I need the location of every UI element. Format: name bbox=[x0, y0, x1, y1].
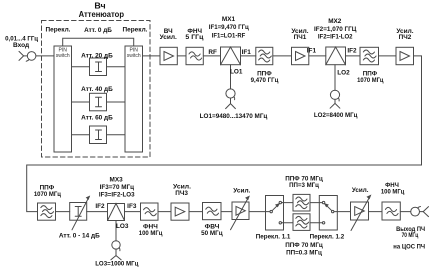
variable amplifier A5 bbox=[231, 197, 250, 230]
svg-text:RF: RF bbox=[208, 49, 217, 56]
svg-text:ПЧ1: ПЧ1 bbox=[294, 34, 307, 41]
svg-text:5 ГГц: 5 ГГц bbox=[185, 34, 203, 41]
svg-text:МХ2: МХ2 bbox=[328, 18, 342, 25]
amplifier A2 IF1 bbox=[292, 47, 309, 64]
output connector J2 bbox=[411, 207, 429, 217]
svg-text:IF3: IF3 bbox=[127, 203, 137, 210]
svg-text:Усил.: Усил. bbox=[160, 34, 177, 41]
svg-text:LO1: LO1 bbox=[230, 69, 243, 76]
wire LPF1 to MX1 bbox=[203, 55, 220, 57]
wire BPF3 to ATT4 bbox=[56, 211, 70, 213]
wire LPF3 to output bbox=[400, 211, 410, 213]
wire A6 to LPF3 bbox=[369, 211, 383, 213]
low-pass filter LPF3 100MHz bbox=[382, 202, 400, 220]
svg-text:IF1: IF1 bbox=[307, 48, 317, 55]
svg-text:Усил.: Усил. bbox=[233, 187, 250, 194]
wire HPF1 to A5 bbox=[221, 211, 232, 213]
wire MX1 to BPF1 bbox=[241, 55, 256, 57]
amplifier A3 IF2 bbox=[396, 47, 414, 64]
wire ATT40 to S2 bbox=[107, 101, 126, 103]
mixer MX1 bbox=[221, 47, 241, 65]
svg-text:100 МГц: 100 МГц bbox=[139, 230, 163, 237]
svg-text:Атт. 0 дБ: Атт. 0 дБ bbox=[84, 27, 112, 34]
svg-text:IF3=IF2-LO3: IF3=IF2-LO3 bbox=[99, 191, 135, 198]
svg-text:Перекл. 1.1: Перекл. 1.1 bbox=[256, 233, 291, 240]
oscillator LO3 connector bbox=[111, 241, 121, 260]
wire A4 to HPF1 bbox=[189, 211, 203, 213]
PIN switch S1 bbox=[54, 46, 72, 152]
PIN switch S2 bbox=[125, 46, 143, 152]
attenuator ATT 40 dB bbox=[90, 93, 107, 111]
wire BPF1 to A2 bbox=[273, 55, 292, 57]
svg-text:IF1: IF1 bbox=[242, 49, 252, 56]
svg-text:IF3=70 МГц: IF3=70 МГц bbox=[100, 184, 134, 191]
amplifier A4 IF3 bbox=[171, 203, 189, 220]
svg-text:ПП=0.3 МГц: ПП=0.3 МГц bbox=[286, 249, 322, 256]
svg-text:Атт. 20 дБ: Атт. 20 дБ bbox=[81, 52, 113, 59]
wire A5 to SW1 bbox=[249, 211, 270, 213]
svg-text:IF2: IF2 bbox=[95, 203, 105, 210]
svg-text:LO2: LO2 bbox=[337, 70, 350, 77]
wire LPF2 to A4 bbox=[158, 211, 171, 213]
mixer MX3 bbox=[108, 204, 125, 221]
wire BPF4 to SW2 bbox=[310, 202, 322, 204]
svg-text:IF2=IF1-LO2: IF2=IF1-LO2 bbox=[318, 33, 353, 40]
switch SW2 Perekl 1.2 bbox=[319, 196, 337, 231]
low-pass filter LPF2 100MHz bbox=[141, 203, 159, 220]
svg-text:Перекл.: Перекл. bbox=[46, 26, 71, 33]
wire ATT60 to S2 bbox=[107, 134, 126, 136]
wire S2 to RF amp bbox=[143, 55, 161, 57]
svg-text:1070 МГц: 1070 МГц bbox=[357, 77, 383, 84]
oscillator LO1 stem bbox=[230, 65, 232, 89]
svg-text:switch: switch bbox=[56, 53, 70, 59]
svg-text:LO2=8400 МГц: LO2=8400 МГц bbox=[314, 112, 358, 119]
wire ATT4 to MX3 bbox=[87, 211, 108, 213]
svg-text:50 МГц: 50 МГц bbox=[201, 230, 223, 237]
oscillator LO1 connector bbox=[226, 89, 236, 109]
svg-text:Вход: Вход bbox=[13, 42, 29, 49]
svg-text:ПЧ3: ПЧ3 bbox=[175, 190, 188, 197]
oscillator LO2 connector bbox=[330, 90, 340, 108]
svg-text:IF1=9,470 ГГц: IF1=9,470 ГГц bbox=[209, 24, 249, 31]
svg-text:IF2: IF2 bbox=[347, 48, 357, 55]
svg-text:Атт. 40 дБ: Атт. 40 дБ bbox=[81, 86, 113, 93]
wire BPF5 to SW2 bbox=[310, 222, 322, 224]
svg-text:МХ3: МХ3 bbox=[110, 176, 124, 183]
wire bypass 0 dB bbox=[63, 38, 134, 46]
band-pass filter BPF1 9.47GHz bbox=[256, 47, 273, 64]
attenuator ATT 20 dB bbox=[90, 58, 107, 76]
attenuator ATT 60 dB bbox=[90, 126, 107, 144]
wire return route A3 to BPF3 bbox=[27, 56, 422, 212]
band-pass filter BPF2 1070MHz bbox=[360, 47, 379, 64]
svg-text:Перекл.: Перекл. bbox=[123, 26, 148, 33]
svg-text:70 МГц: 70 МГц bbox=[402, 232, 419, 239]
wire A1 to LPF1 bbox=[177, 55, 186, 57]
input connector J1 bbox=[19, 51, 54, 61]
svg-text:Атт. 60 дБ: Атт. 60 дБ bbox=[81, 115, 113, 122]
svg-text:Перекл. 1.2: Перекл. 1.2 bbox=[310, 233, 345, 240]
variable attenuator ATT4 0-14dB bbox=[70, 196, 90, 229]
wire S1 to ATT40 bbox=[72, 101, 90, 103]
svg-text:Вч: Вч bbox=[94, 1, 106, 10]
svg-text:Аттенюатор: Аттенюатор bbox=[79, 10, 124, 19]
oscillator LO3 stem bbox=[115, 221, 117, 241]
svg-text:ПЧ2: ПЧ2 bbox=[399, 34, 412, 41]
mixer MX2 bbox=[326, 47, 346, 65]
wire BPF2 to A3 bbox=[379, 55, 397, 57]
wire A2 to MX2 bbox=[309, 55, 326, 57]
svg-text:switch: switch bbox=[127, 53, 141, 59]
wire SW1 to BPF4 bbox=[282, 202, 294, 204]
svg-text:IF1=LO1-RF: IF1=LO1-RF bbox=[212, 32, 246, 39]
svg-text:LO1=9480...13470 МГц: LO1=9480...13470 МГц bbox=[200, 113, 268, 120]
svg-text:Усил.: Усил. bbox=[352, 187, 369, 194]
svg-text:LO3=1000 МГц: LO3=1000 МГц bbox=[95, 260, 138, 267]
wire MX2 to BPF2 bbox=[346, 55, 361, 57]
amplifier A1 RF bbox=[160, 47, 177, 64]
svg-text:ПП=3 МГц: ПП=3 МГц bbox=[289, 182, 319, 189]
svg-text:100 МГц: 100 МГц bbox=[381, 188, 405, 195]
svg-text:МХ1: МХ1 bbox=[222, 16, 236, 23]
HF attenuator dashed enclosure bbox=[42, 21, 151, 158]
svg-text:на ЦОС ПЧ: на ЦОС ПЧ bbox=[393, 244, 425, 251]
band-pass filter BPF3 1070MHz bbox=[38, 203, 56, 220]
wire S1 to ATT20 bbox=[72, 66, 90, 68]
oscillator LO2 stem bbox=[334, 65, 336, 91]
svg-text:9,470 ГГц: 9,470 ГГц bbox=[251, 77, 279, 84]
variable amplifier A6 bbox=[351, 196, 371, 231]
svg-text:ППФ 70 МГц: ППФ 70 МГц bbox=[285, 242, 323, 249]
band-pass filter BPF5 70MHz BW0.3 bbox=[293, 214, 310, 231]
svg-text:1070 МГц: 1070 МГц bbox=[34, 191, 61, 198]
wire SW2 to A6 bbox=[334, 211, 351, 213]
wire ATT20 to S2 bbox=[107, 66, 126, 68]
wire S1 to ATT60 bbox=[72, 134, 90, 136]
wire MX3 to LPF2 bbox=[125, 211, 141, 213]
wire SW1 to BPF5 bbox=[282, 222, 294, 224]
switch SW1 Perekl 1.1 bbox=[266, 196, 284, 231]
svg-text:LO3: LO3 bbox=[116, 223, 129, 230]
low-pass filter LPF1 5GHz bbox=[186, 47, 203, 64]
band-pass filter BPF4 70MHz BW3 bbox=[293, 194, 310, 211]
high-pass filter HPF1 50MHz bbox=[203, 203, 222, 220]
svg-text:Атт. 0 - 14 дБ: Атт. 0 - 14 дБ bbox=[59, 233, 100, 240]
svg-text:IF2=1,070 ГГЦ: IF2=1,070 ГГЦ bbox=[314, 26, 357, 33]
